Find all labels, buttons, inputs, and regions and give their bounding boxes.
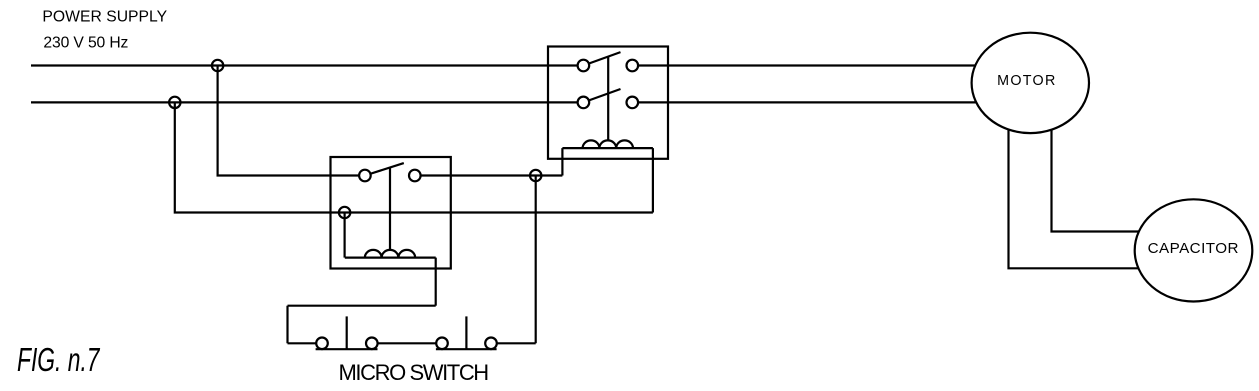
wire motor to capacitor top — [1052, 95, 1186, 232]
contactor K1 actuator link — [607, 57, 609, 141]
wire from node B down and right to contactor K1 coil right terminal — [175, 102, 653, 212]
micro switch S1 bridge bar — [316, 348, 378, 350]
wire motor to capacitor bottom — [1009, 95, 1186, 268]
wire micro switch bottom segment 2 — [372, 342, 442, 344]
micro switch S2 bridge bar — [436, 348, 497, 350]
wire relay K2 coil right terminal down to micro switch — [435, 258, 437, 306]
relay K2 box — [331, 157, 451, 269]
wire contactor K1 coil right terminal — [652, 148, 654, 212]
wire power line L2 left segment — [31, 101, 583, 103]
wire from node A down and right to relay K2 contact — [218, 66, 365, 176]
wire micro switch right vertical up to node D — [535, 176, 537, 344]
node B junction on L2 — [169, 97, 180, 108]
wire contactor K1 coil left terminal — [561, 148, 563, 175]
contactor K1 switch blade row 1 — [583, 52, 620, 65]
relay K2 contact terminals — [359, 170, 371, 182]
svg-text:POWER SUPPLY: POWER SUPPLY — [42, 8, 167, 25]
wire micro switch left vertical — [286, 306, 288, 344]
svg-text:CAPACITOR: CAPACITOR — [1148, 240, 1239, 257]
relay K2 actuator link — [389, 168, 391, 250]
wire power line L1 right segment to motor — [632, 64, 1030, 66]
micro switch S2 contact terminals — [436, 338, 448, 350]
node A junction on L1 — [212, 60, 223, 71]
contactor K1 contact terminals row 1 — [578, 60, 590, 72]
capacitor C1 — [1135, 199, 1253, 301]
svg-text:230 V 50 Hz: 230 V 50 Hz — [43, 35, 128, 52]
motor M1 — [972, 33, 1089, 133]
wire power line L2 right segment to motor — [632, 101, 1030, 103]
contactor K1 coil — [562, 140, 653, 148]
micro switch S1 plunger — [346, 316, 348, 349]
wire micro switch top horizontal — [288, 305, 436, 307]
micro switch S2 plunger — [465, 316, 467, 349]
wire relay K2 coil left terminal up to node C — [344, 213, 346, 258]
node D junction — [530, 170, 541, 181]
wire micro switch bottom segment 3 — [491, 342, 536, 344]
svg-text:MICRO SWITCH: MICRO SWITCH — [339, 360, 490, 385]
wire micro switch bottom segment 1 — [288, 342, 323, 344]
wire power line L1 left segment — [31, 64, 583, 66]
relay K2 coil — [345, 250, 436, 258]
node C junction — [339, 207, 350, 218]
wire from relay K2 contact to contactor K1 coil left terminal — [415, 174, 563, 176]
svg-text:MOTOR: MOTOR — [997, 73, 1055, 89]
contactor K1 switch blade row 2 — [583, 89, 620, 102]
svg-text:FIG. n.7: FIG. n.7 — [17, 341, 101, 378]
contactor K1 box — [548, 47, 668, 159]
micro switch S1 contact terminals — [316, 338, 328, 350]
relay K2 switch blade — [365, 163, 404, 175]
contactor K1 contact terminals row 2 — [578, 97, 590, 109]
